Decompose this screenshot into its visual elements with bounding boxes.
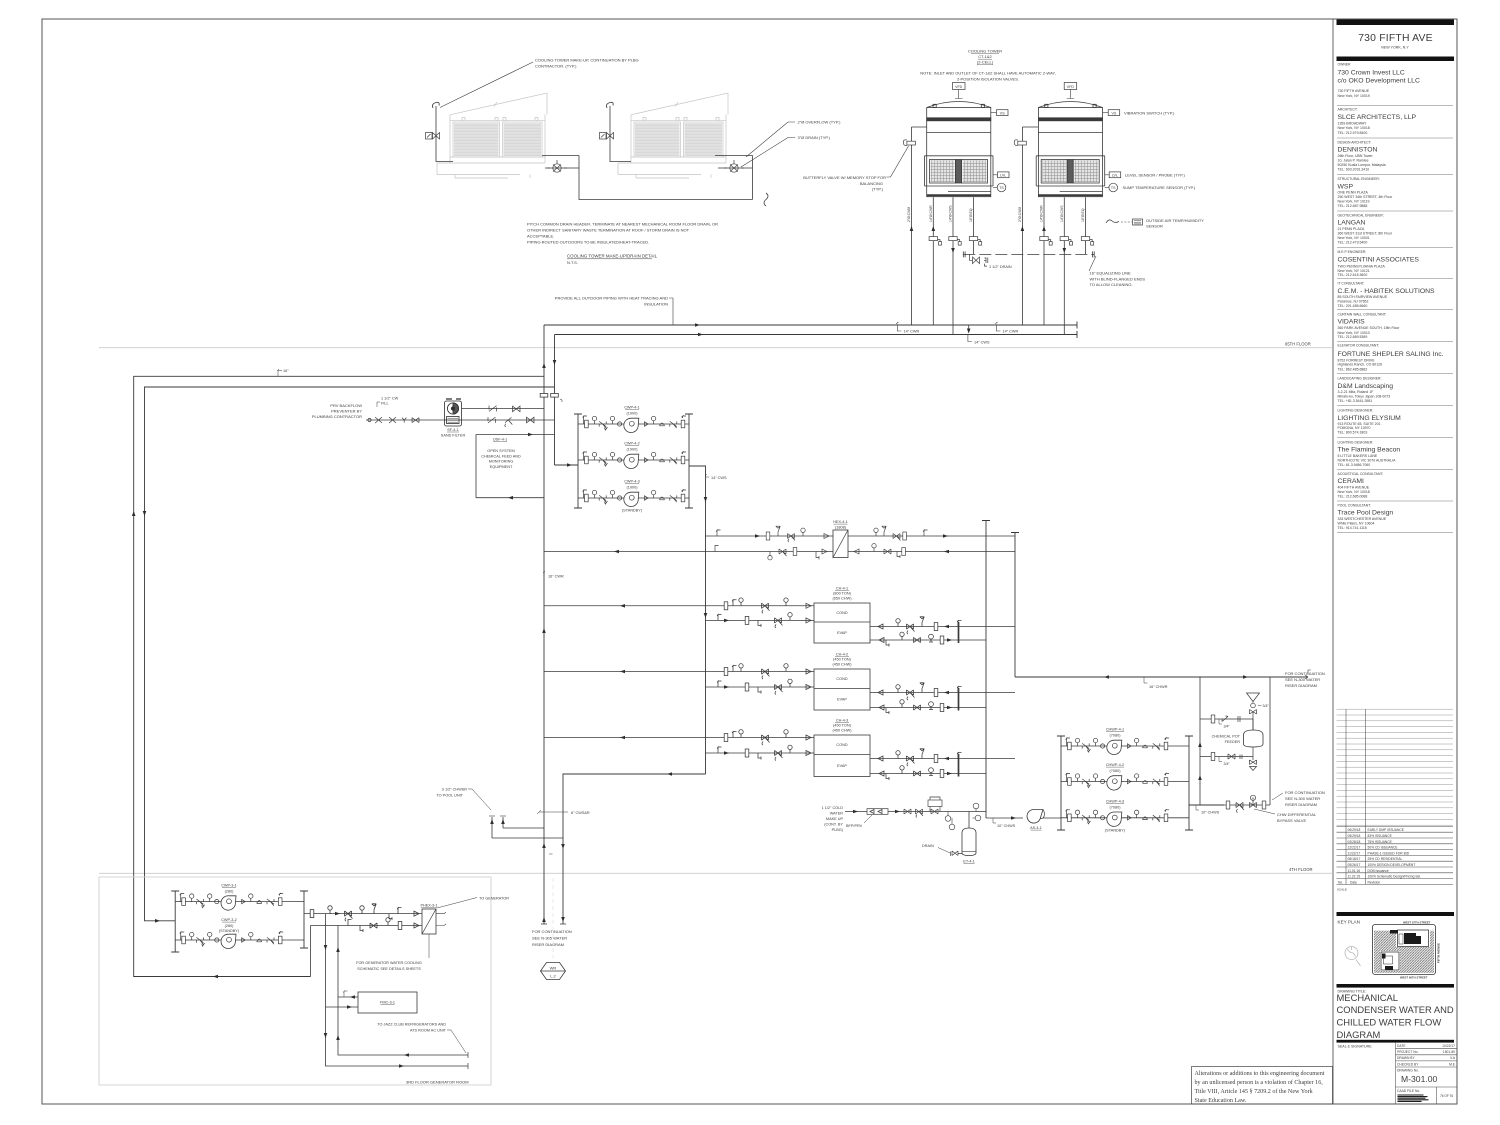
svg-text:CERAMI: CERAMI <box>1338 478 1365 485</box>
svg-text:8" CWS&R: 8" CWS&R <box>571 811 590 815</box>
BFP/PRV backflow preventer <box>867 809 888 815</box>
svg-text:OPEN SYSTEM: OPEN SYSTEM <box>487 449 514 453</box>
consultant section divider lines <box>1337 105 1453 532</box>
CT-2 make-up pipe <box>1022 127 1038 325</box>
svg-text:VS: VS <box>1000 111 1005 115</box>
svg-text:Highlands Ranch, CO 80126: Highlands Ranch, CO 80126 <box>1338 363 1383 367</box>
HEX supply components left <box>716 526 829 542</box>
svg-text:DRAIN: DRAIN <box>922 844 934 848</box>
sand filter SF-4-1 <box>445 399 462 426</box>
svg-text:DRAWN BY: DRAWN BY <box>1397 1056 1415 1060</box>
svg-text:CHWP-4-3: CHWP-4-3 <box>1106 799 1124 803</box>
svg-text:(1900): (1900) <box>627 412 639 416</box>
CT-2 CWR pipe <box>1043 197 1045 325</box>
svg-text:250 WEST 34th STREET, 4th Floo: 250 WEST 34th STREET, 4th Floor <box>1338 195 1394 199</box>
svg-text:(1808): (1808) <box>835 526 847 530</box>
svg-text:POOL CONSULTANT:: POOL CONSULTANT: <box>1338 503 1371 507</box>
svg-text:TEL: +81.3.5441.3981: TEL: +81.3.5441.3981 <box>1338 399 1373 403</box>
svg-text:50250 Kuala Lumpur, Malaysia: 50250 Kuala Lumpur, Malaysia <box>1338 163 1386 167</box>
svg-text:3-2-21 Mita, Roland 1F: 3-2-21 Mita, Roland 1F <box>1338 390 1374 394</box>
svg-text:CURTAIN WALL CONSULTANT:: CURTAIN WALL CONSULTANT: <box>1338 313 1387 317</box>
pot feeder top branch <box>1200 715 1253 730</box>
16" CWR riser label <box>543 571 564 579</box>
svg-text:TEL: 212.685.0088: TEL: 212.685.0088 <box>1338 495 1368 499</box>
continuation arrowhead top <box>1305 670 1311 679</box>
svg-text:(STANDBY): (STANDBY) <box>219 929 240 933</box>
CHWP-4-1 pump assembly <box>1061 728 1189 755</box>
WR continuation hexagon <box>541 878 566 980</box>
svg-text:FOR CONTINUATION: FOR CONTINUATION <box>1285 790 1325 795</box>
blind flange left <box>963 251 965 257</box>
svg-text:IT CONSULTANT:: IT CONSULTANT: <box>1338 281 1365 285</box>
header size ticks <box>896 322 1000 342</box>
svg-text:CAAD FILE No.: CAAD FILE No. <box>1397 1089 1420 1093</box>
svg-text:TEL: 201.485.6660: TEL: 201.485.6660 <box>1338 304 1368 308</box>
flow arrows on headers <box>695 323 700 327</box>
svg-text:14" CWS: 14" CWS <box>974 341 990 345</box>
chiller CH-4-3 <box>814 719 870 777</box>
svg-text:WITH BLIND-FLANGED ENDS: WITH BLIND-FLANGED ENDS <box>1090 276 1146 281</box>
svg-text:WEST 57TH STREET: WEST 57TH STREET <box>1403 920 1431 924</box>
svg-text:SAND FILTER: SAND FILTER <box>441 434 466 438</box>
svg-text:26th Floor, UBN Tower: 26th Floor, UBN Tower <box>1338 154 1374 158</box>
svg-text:3RD FLOOR GENERATOR ROOM: 3RD FLOOR GENERATOR ROOM <box>406 1080 469 1085</box>
key plan map <box>1373 920 1441 979</box>
svg-text:CHEMICAL POT: CHEMICAL POT <box>1212 735 1241 739</box>
equalizing line note <box>1089 256 1145 287</box>
bypass riser to CHWR <box>1269 677 1271 805</box>
PHEX-3-1 heat exchanger <box>420 904 437 935</box>
svg-text:360 WEST 31st STREET, 8th Floo: 360 WEST 31st STREET, 8th Floor <box>1338 232 1393 236</box>
left condenser loop supply <box>134 376 544 976</box>
svg-text:5 LITTLE BAKERS LANE: 5 LITTLE BAKERS LANE <box>1338 454 1378 458</box>
svg-text:BFP/PRV: BFP/PRV <box>846 824 863 828</box>
svg-text:4TH FLOOR: 4TH FLOOR <box>1289 867 1313 872</box>
svg-text:DRAWING No.: DRAWING No. <box>1397 1069 1419 1073</box>
svg-text:05/26/17: 05/26/17 <box>1348 863 1361 867</box>
svg-text:Minato-ku, Tokyo Japan 108-007: Minato-ku, Tokyo Japan 108-0073 <box>1338 395 1391 399</box>
svg-text:1 1/2" COLD: 1 1/2" COLD <box>822 806 844 810</box>
svg-text:RISER DIAGRAM: RISER DIAGRAM <box>532 942 564 947</box>
svg-text:SF-4-1: SF-4-1 <box>447 428 459 432</box>
svg-text:SCALE: SCALE <box>1337 888 1347 892</box>
svg-text:TEL: 212.615.3600: TEL: 212.615.3600 <box>1338 273 1368 277</box>
svg-text:(800 TON): (800 TON) <box>833 592 852 596</box>
svg-text:Title VIII, Article 145 § 7209: Title VIII, Article 145 § 7209.2 of the … <box>1195 1088 1314 1095</box>
svg-text:(7080): (7080) <box>1110 734 1122 738</box>
svg-text:OWNER: OWNER <box>1338 63 1352 67</box>
gen return line from PHEX <box>311 918 423 977</box>
svg-text:OTHER INDIRECT SANITARY WASTE: OTHER INDIRECT SANITARY WASTE TERMINATIO… <box>527 228 690 233</box>
pool branch supply <box>503 817 544 828</box>
OSF-4-1 chemical feed box <box>476 433 555 500</box>
CWP-3-2 standby pump assembly <box>175 918 304 949</box>
svg-text:VIBRATION SWITCH (TYP.): VIBRATION SWITCH (TYP.) <box>1124 110 1175 115</box>
FMC-3-1 unit <box>358 992 417 1013</box>
svg-text:BYPASS VALVE: BYPASS VALVE <box>1277 818 1306 823</box>
CWS to pump suction <box>555 464 579 466</box>
rotated pipe size labels <box>907 205 1085 222</box>
svg-text:11.22.15: 11.22.15 <box>1348 875 1361 879</box>
svg-text:PRV BACKFLOW: PRV BACKFLOW <box>330 403 362 408</box>
svg-text:TO GENERATOR: TO GENERATOR <box>479 897 509 901</box>
svg-text:GEOTECHNICAL ENGINEER:: GEOTECHNICAL ENGINEER: <box>1338 213 1384 217</box>
svg-text:DENNISTON: DENNISTON <box>1338 147 1378 154</box>
CT-2 make-up butterfly valve <box>1014 140 1026 146</box>
svg-text:CH-4-2: CH-4-2 <box>836 653 848 657</box>
svg-text:11/22/17: 11/22/17 <box>1348 851 1361 855</box>
PI gauges <box>945 803 981 830</box>
svg-text:SEE N-300 WATER: SEE N-300 WATER <box>1285 677 1320 682</box>
svg-text:TEL: 862.485.6882: TEL: 862.485.6882 <box>1338 367 1368 371</box>
svg-text:(450 CHW): (450 CHW) <box>833 663 853 667</box>
svg-text:New York, NY 10018: New York, NY 10018 <box>1338 490 1370 494</box>
note: provide all outdoor piping w/ heat tracing <box>555 296 673 326</box>
chemical pot feeder riser <box>1199 677 1201 805</box>
svg-text:1359 BROADWAY: 1359 BROADWAY <box>1338 121 1367 125</box>
svg-text:(650 CHW): (650 CHW) <box>833 597 853 601</box>
caad scribble <box>1398 1095 1429 1101</box>
pool branch return <box>492 817 563 838</box>
alterations note box <box>1192 1067 1333 1105</box>
svg-text:SCHEMATIC SEE DETAILS SHEETS: SCHEMATIC SEE DETAILS SHEETS <box>357 967 421 971</box>
svg-text:2"Ø CWM: 2"Ø CWM <box>907 207 911 222</box>
CT-1 CWS pipe <box>952 197 954 334</box>
loop arrows <box>132 511 136 516</box>
svg-text:TEL: 603.2031.3410: TEL: 603.2031.3410 <box>1338 168 1370 172</box>
svg-text:ONE PENN PLAZA: ONE PENN PLAZA <box>1338 191 1369 195</box>
svg-text:OSF-4-1: OSF-4-1 <box>493 438 508 442</box>
svg-text:COOLING TOWER MAKE-UP, CONTINU: COOLING TOWER MAKE-UP, CONTINUATION BY P… <box>535 58 639 63</box>
CT-1 make-up pipe <box>912 127 927 325</box>
svg-text:c/o OKO Development LLC: c/o OKO Development LLC <box>1338 77 1420 84</box>
svg-text:New York, NY 10019: New York, NY 10019 <box>1338 94 1370 98</box>
svg-text:25% CD RESIDENTIAL: 25% CD RESIDENTIAL <box>1368 857 1403 861</box>
svg-text:The Flaming Beacon: The Flaming Beacon <box>1338 447 1401 454</box>
svg-text:TEL: 914.741.1115: TEL: 914.741.1115 <box>1338 526 1367 530</box>
svg-text:14" CWR: 14" CWR <box>904 330 920 334</box>
svg-text:LANDSCAPING DESIGNER:: LANDSCAPING DESIGNER: <box>1338 377 1382 381</box>
CHW bypass valve train <box>1224 795 1270 812</box>
CH-4-1 condenser supply stub <box>706 613 815 628</box>
gen cooling loads riser B <box>338 926 468 1056</box>
drain label <box>922 844 950 853</box>
key plan <box>1337 912 1455 980</box>
svg-text:New York, NY 10001: New York, NY 10001 <box>1338 236 1370 240</box>
HEX-4-1 heat exchanger <box>833 520 848 558</box>
pump discharge manifold <box>685 414 693 508</box>
CH-4-3 condenser supply stub <box>706 745 815 760</box>
svg-text:14"Ø CWS: 14"Ø CWS <box>1060 205 1064 222</box>
svg-text:CHEMICAL FEED AND: CHEMICAL FEED AND <box>481 454 521 458</box>
svg-text:New York, NY 10018: New York, NY 10018 <box>1338 126 1370 130</box>
svg-text:(1900): (1900) <box>627 448 639 452</box>
65th floor line <box>99 342 1333 348</box>
svg-text:ATS ROOM AC UNIT: ATS ROOM AC UNIT <box>410 1029 447 1033</box>
svg-text:CHWP-4-2: CHWP-4-2 <box>1106 763 1124 767</box>
cold water make-up note <box>822 806 844 832</box>
CH-4-2 condenser return line <box>544 664 814 679</box>
CHWS header riser <box>982 521 990 819</box>
svg-text:2"Ø CWM: 2"Ø CWM <box>1018 207 1022 222</box>
svg-text:N.T.S.: N.T.S. <box>567 260 578 265</box>
gen supply line to PHEX <box>304 904 422 921</box>
svg-text:16": 16" <box>283 369 289 373</box>
svg-text:C.E.M. - HABITEK SOLUTIONS: C.E.M. - HABITEK SOLUTIONS <box>1338 288 1436 295</box>
svg-text:(450 TON): (450 TON) <box>833 658 852 662</box>
svg-text:RISER DIAGRAM: RISER DIAGRAM <box>1285 802 1317 807</box>
gen pump discharge manifold <box>300 891 308 948</box>
note: cooling tower make-up label <box>440 58 639 108</box>
note: drain label <box>741 135 831 167</box>
buildings <box>1398 930 1429 947</box>
drain valve T2 <box>724 160 744 172</box>
svg-text:CT-1&2: CT-1&2 <box>978 54 992 59</box>
solenoid make-up valve T1 <box>426 133 440 140</box>
HEX return components <box>715 544 905 560</box>
svg-text:CWP-3-1: CWP-3-1 <box>221 884 237 888</box>
make-up ball valve <box>904 809 911 814</box>
svg-text:PITCH COMMON DRAIN HEADER. TER: PITCH COMMON DRAIN HEADER. TERMINATE AT … <box>527 222 718 227</box>
drain/overflow header detail <box>542 156 753 200</box>
svg-text:COOLING TOWER MAKE-UP/DRAIN DE: COOLING TOWER MAKE-UP/DRAIN DETAIL <box>567 254 658 259</box>
14" CWS tick label <box>705 474 727 480</box>
svg-text:11.01.16: 11.01.16 <box>1348 869 1361 873</box>
svg-text:White Plains, NY 10604: White Plains, NY 10604 <box>1338 522 1375 526</box>
svg-text:PHEX-3-1: PHEX-3-1 <box>420 904 437 908</box>
pipe break squiggle <box>764 193 768 206</box>
svg-text:LIGHTING DESIGNER:: LIGHTING DESIGNER: <box>1338 440 1374 444</box>
svg-text:(STANDBY): (STANDBY) <box>622 509 643 513</box>
svg-text:CHECKED BY: CHECKED BY <box>1397 1062 1419 1066</box>
svg-text:LVL: LVL <box>1000 174 1006 178</box>
blind flange right <box>1092 251 1094 257</box>
note: overflow label <box>746 120 841 157</box>
svg-text:M-301.00: M-301.00 <box>1401 1074 1438 1084</box>
svg-text:16" CHWR: 16" CHWR <box>1149 685 1168 689</box>
svg-text:(1900): (1900) <box>627 486 639 490</box>
CH-4-1 evaporator supply line <box>870 617 1015 634</box>
make-up butterfly valve <box>916 809 924 818</box>
svg-text:WR: WR <box>550 966 557 971</box>
CHWS discharge header <box>1189 804 1224 806</box>
CH-4-3 evaporator supply line <box>870 749 1015 766</box>
CT-1 equalizer pipe <box>973 197 975 254</box>
make-up pipe tower 2 <box>606 102 631 161</box>
svg-text:FMC-3-1: FMC-3-1 <box>380 1001 395 1005</box>
svg-text:MAKE UP: MAKE UP <box>826 817 844 821</box>
riser flow arrows <box>542 363 546 368</box>
svg-text:EVAP: EVAP <box>837 764 847 768</box>
CT-1 level sensor <box>993 172 1009 178</box>
svg-text:(CONT. BY: (CONT. BY <box>824 823 843 827</box>
CHWS line to air separator <box>986 817 1023 819</box>
svg-text:12/22/17: 12/22/17 <box>1348 846 1361 850</box>
CH-4-1 condenser return line <box>544 598 814 613</box>
svg-text:No.: No. <box>1338 880 1343 884</box>
cooling tower CT-1&2 title <box>968 49 1002 65</box>
svg-text:FOR GENERATOR WATER COOLING: FOR GENERATOR WATER COOLING <box>356 961 422 965</box>
svg-text:INSULATION: INSULATION <box>644 302 668 307</box>
10" CHWS tick <box>1196 805 1220 815</box>
note: inlet-outlet automatic valves <box>920 71 1055 82</box>
svg-text:VFD: VFD <box>1067 85 1075 89</box>
svg-text:RISER DIAGRAM: RISER DIAGRAM <box>1285 683 1317 688</box>
svg-text:SEE N-305 WATER: SEE N-305 WATER <box>532 936 567 941</box>
svg-text:3/4": 3/4" <box>1224 762 1231 766</box>
svg-text:SUMP TEMPERATURE SENSOR (TY: SUMP TEMPERATURE SENSOR (TYP.) <box>1123 185 1196 190</box>
svg-text:Paramus, NJ 07652: Paramus, NJ 07652 <box>1338 300 1369 304</box>
svg-text:TEL: 212.979.8400: TEL: 212.979.8400 <box>1338 131 1368 135</box>
svg-text:14" CWR: 14" CWR <box>1003 330 1019 334</box>
svg-text:730 FIFTH AVENUE: 730 FIFTH AVENUE <box>1338 89 1370 93</box>
riser flex connectors <box>540 394 562 403</box>
svg-text:TEL: 212.479.5400: TEL: 212.479.5400 <box>1338 241 1368 245</box>
svg-text:03/28/18: 03/28/18 <box>1348 840 1361 844</box>
HEX supply components right <box>874 526 928 540</box>
svg-text:05/29/18: 05/29/18 <box>1348 834 1361 838</box>
svg-text:TWO PENNSYLVANIA PLAZA: TWO PENNSYLVANIA PLAZA <box>1338 264 1386 268</box>
svg-text:HEX-4-1: HEX-4-1 <box>833 520 848 524</box>
svg-text:LIGHTING DESIGNER:: LIGHTING DESIGNER: <box>1338 409 1374 413</box>
svg-text:LEVEL SENSOR / PROBE (TYP.: LEVEL SENSOR / PROBE (TYP.) <box>1125 173 1185 178</box>
svg-text:State Education Law.: State Education Law. <box>1195 1098 1247 1104</box>
drain valve T1 <box>547 160 567 172</box>
svg-text:COND: COND <box>836 677 847 681</box>
svg-text:(7080): (7080) <box>1110 769 1122 773</box>
svg-text:Date: Date <box>1350 880 1357 884</box>
gen cooling loads riser A <box>326 914 469 1066</box>
isolation valves on tower pipes <box>929 237 941 246</box>
16" tick on loop supply <box>277 369 289 376</box>
svg-text:NORTHCOTE VIC 3070 AUSTRALIA: NORTHCOTE VIC 3070 AUSTRALIA <box>1338 459 1397 463</box>
svg-text:(2-CELL): (2-CELL) <box>977 60 994 65</box>
svg-text:FORTUNE SHEPLER SALING Inc.: FORTUNE SHEPLER SALING Inc. <box>1338 351 1444 358</box>
svg-text:LANGAN: LANGAN <box>1338 220 1366 227</box>
svg-text:75% ISSUANCE: 75% ISSUANCE <box>1368 840 1393 844</box>
svg-text:TEL: 800.574.1803: TEL: 800.574.1803 <box>1338 431 1368 435</box>
svg-text:Revision: Revision <box>1368 880 1381 884</box>
CWP-4-1 pump assembly <box>578 406 689 433</box>
svg-text:SLCE ARCHITECTS, LLP: SLCE ARCHITECTS, LLP <box>1338 114 1417 121</box>
3rd floor generator room boundary <box>99 877 491 1085</box>
continuation note N-305 <box>532 929 572 947</box>
svg-text:14" CWS: 14" CWS <box>711 476 727 480</box>
CT-1 VFD <box>953 83 966 99</box>
8" CWS&R label mid riser <box>549 853 553 855</box>
8" CWS&R size tick <box>537 810 590 815</box>
CWP-3-1 pump assembly <box>175 884 304 911</box>
riser end arrows <box>542 917 546 922</box>
FMC supply stub <box>338 991 358 999</box>
svg-text:1 1/2" DRAIN: 1 1/2" DRAIN <box>989 265 1012 269</box>
svg-text:PROVIDE ALL OUTDOOR PIPING WIT: PROVIDE ALL OUTDOOR PIPING WITH HEAT TRA… <box>555 296 668 301</box>
svg-text:2"Ø OVERFLOW (TYP.): 2"Ø OVERFLOW (TYP.) <box>798 120 842 125</box>
CWP-4-3 standby pump assembly <box>578 480 689 513</box>
CT-2 vibration switch w/ label <box>1103 110 1175 116</box>
continuation note top right <box>1285 671 1325 688</box>
svg-text:10" CHWS: 10" CHWS <box>997 824 1016 828</box>
svg-text:WEST 56TH STREET: WEST 56TH STREET <box>1400 976 1428 980</box>
title block <box>1333 19 1454 1104</box>
svg-text:M.E.P ENGINEER:: M.E.P ENGINEER: <box>1338 250 1367 254</box>
ET-4-1 expansion tank <box>962 812 976 864</box>
PRV backflow preventer <box>368 417 419 423</box>
svg-text:EQUIPMENT: EQUIPMENT <box>490 465 513 469</box>
svg-text:ELEVATOR CONSULTANT:: ELEVATOR CONSULTANT: <box>1338 343 1380 347</box>
svg-text:TO JAZZ CLUB REFRIGERATORS AND: TO JAZZ CLUB REFRIGERATORS AND <box>377 1023 446 1027</box>
svg-text:ARCHITECT:: ARCHITECT: <box>1338 108 1358 112</box>
svg-text:BALANCING: BALANCING <box>860 181 883 186</box>
valves on fill line right <box>488 417 534 427</box>
bar 2 <box>1337 57 1455 62</box>
svg-text:SENSOR: SENSOR <box>1146 224 1163 229</box>
valves on SF outlet <box>489 406 520 412</box>
svg-text:CHW DIFFERENTIAL: CHW DIFFERENTIAL <box>1277 812 1317 817</box>
svg-text:3/4": 3/4" <box>1263 704 1270 708</box>
svg-text:65TH FLOOR: 65TH FLOOR <box>1285 342 1311 347</box>
svg-text:PLUMBING CONTRACTOR: PLUMBING CONTRACTOR <box>312 414 362 419</box>
svg-text:EVAP: EVAP <box>837 631 847 635</box>
svg-text:(450 CHW): (450 CHW) <box>833 729 853 733</box>
FMC return stub <box>326 1005 359 1009</box>
CH-4-2 evaporator return line <box>870 700 986 714</box>
chemical pot feeder tank <box>1212 730 1263 747</box>
svg-text:FOR CONTINUATION: FOR CONTINUATION <box>1285 671 1325 676</box>
title block header bar <box>1337 20 1455 26</box>
svg-text:10/22/17: 10/22/17 <box>1442 1044 1455 1048</box>
svg-text:SEE N-300 WATER: SEE N-300 WATER <box>1285 796 1320 801</box>
CT-2 equalizer pipe <box>1085 197 1087 254</box>
svg-text:New York, NY 10119: New York, NY 10119 <box>1338 200 1370 204</box>
note: butterfly valve w/ memory stop <box>803 146 908 191</box>
svg-text:(450 TON): (450 TON) <box>833 724 852 728</box>
svg-text:LVL: LVL <box>1112 174 1118 178</box>
sand filter outlet line <box>462 408 545 410</box>
svg-text:COND: COND <box>836 743 847 747</box>
CWS riser from towers <box>554 335 556 466</box>
cooling tower make-up/drain detail: tower 1 (ghost) <box>437 93 547 178</box>
svg-text:FEEDER: FEEDER <box>1225 740 1241 744</box>
svg-text:by an unlicensed person is a v: by an unlicensed person is a violation o… <box>1195 1079 1324 1086</box>
svg-text:360 PARK AVENUE SOUTH, 15th Fl: 360 PARK AVENUE SOUTH, 15th Floor <box>1338 326 1401 330</box>
svg-text:50% CD ISSUANCE: 50% CD ISSUANCE <box>1368 846 1399 850</box>
svg-text:2-POSITION ISOLATION VALVES.: 2-POSITION ISOLATION VALVES. <box>957 77 1019 82</box>
svg-text:FILL: FILL <box>381 402 389 406</box>
svg-text:16"Ø EQ: 16"Ø EQ <box>969 208 973 222</box>
svg-text:VIDARIS: VIDARIS <box>1338 319 1366 326</box>
svg-text:1 1/2" CW: 1 1/2" CW <box>381 397 399 401</box>
svg-text:3"Ø DRAIN (TYP.): 3"Ø DRAIN (TYP.) <box>798 135 831 140</box>
svg-text:CWP-4-3: CWP-4-3 <box>624 480 640 484</box>
CH-4-1 evaporator return line <box>870 632 986 646</box>
cooling tower CT-2 <box>1036 102 1105 197</box>
PRV backflow note <box>312 403 362 419</box>
svg-text:BUTTERFLY VALVE W/ MEMORY STOP: BUTTERFLY VALVE W/ MEMORY STOP FOR <box>803 175 886 180</box>
svg-text:FIFTH AVENUE: FIFTH AVENUE <box>1437 943 1441 963</box>
flow arrows on tower pipes <box>910 226 914 231</box>
CT-1 CWR pipe <box>932 197 934 325</box>
14 CWS header (lower) <box>555 331 1078 338</box>
svg-text:TEL: 212.687.9888: TEL: 212.687.9888 <box>1338 204 1368 208</box>
svg-text:L.2: L.2 <box>550 974 556 979</box>
svg-text:21 PENN PLAZA: 21 PENN PLAZA <box>1338 227 1365 231</box>
svg-text:14"Ø CWR: 14"Ø CWR <box>929 205 933 222</box>
1 1/2 CW fill label <box>377 397 399 408</box>
to generator label <box>436 897 509 926</box>
riser flow arrows <box>542 843 546 848</box>
svg-text:SEAL & SIGNATURE: SEAL & SIGNATURE <box>1338 1045 1373 1049</box>
